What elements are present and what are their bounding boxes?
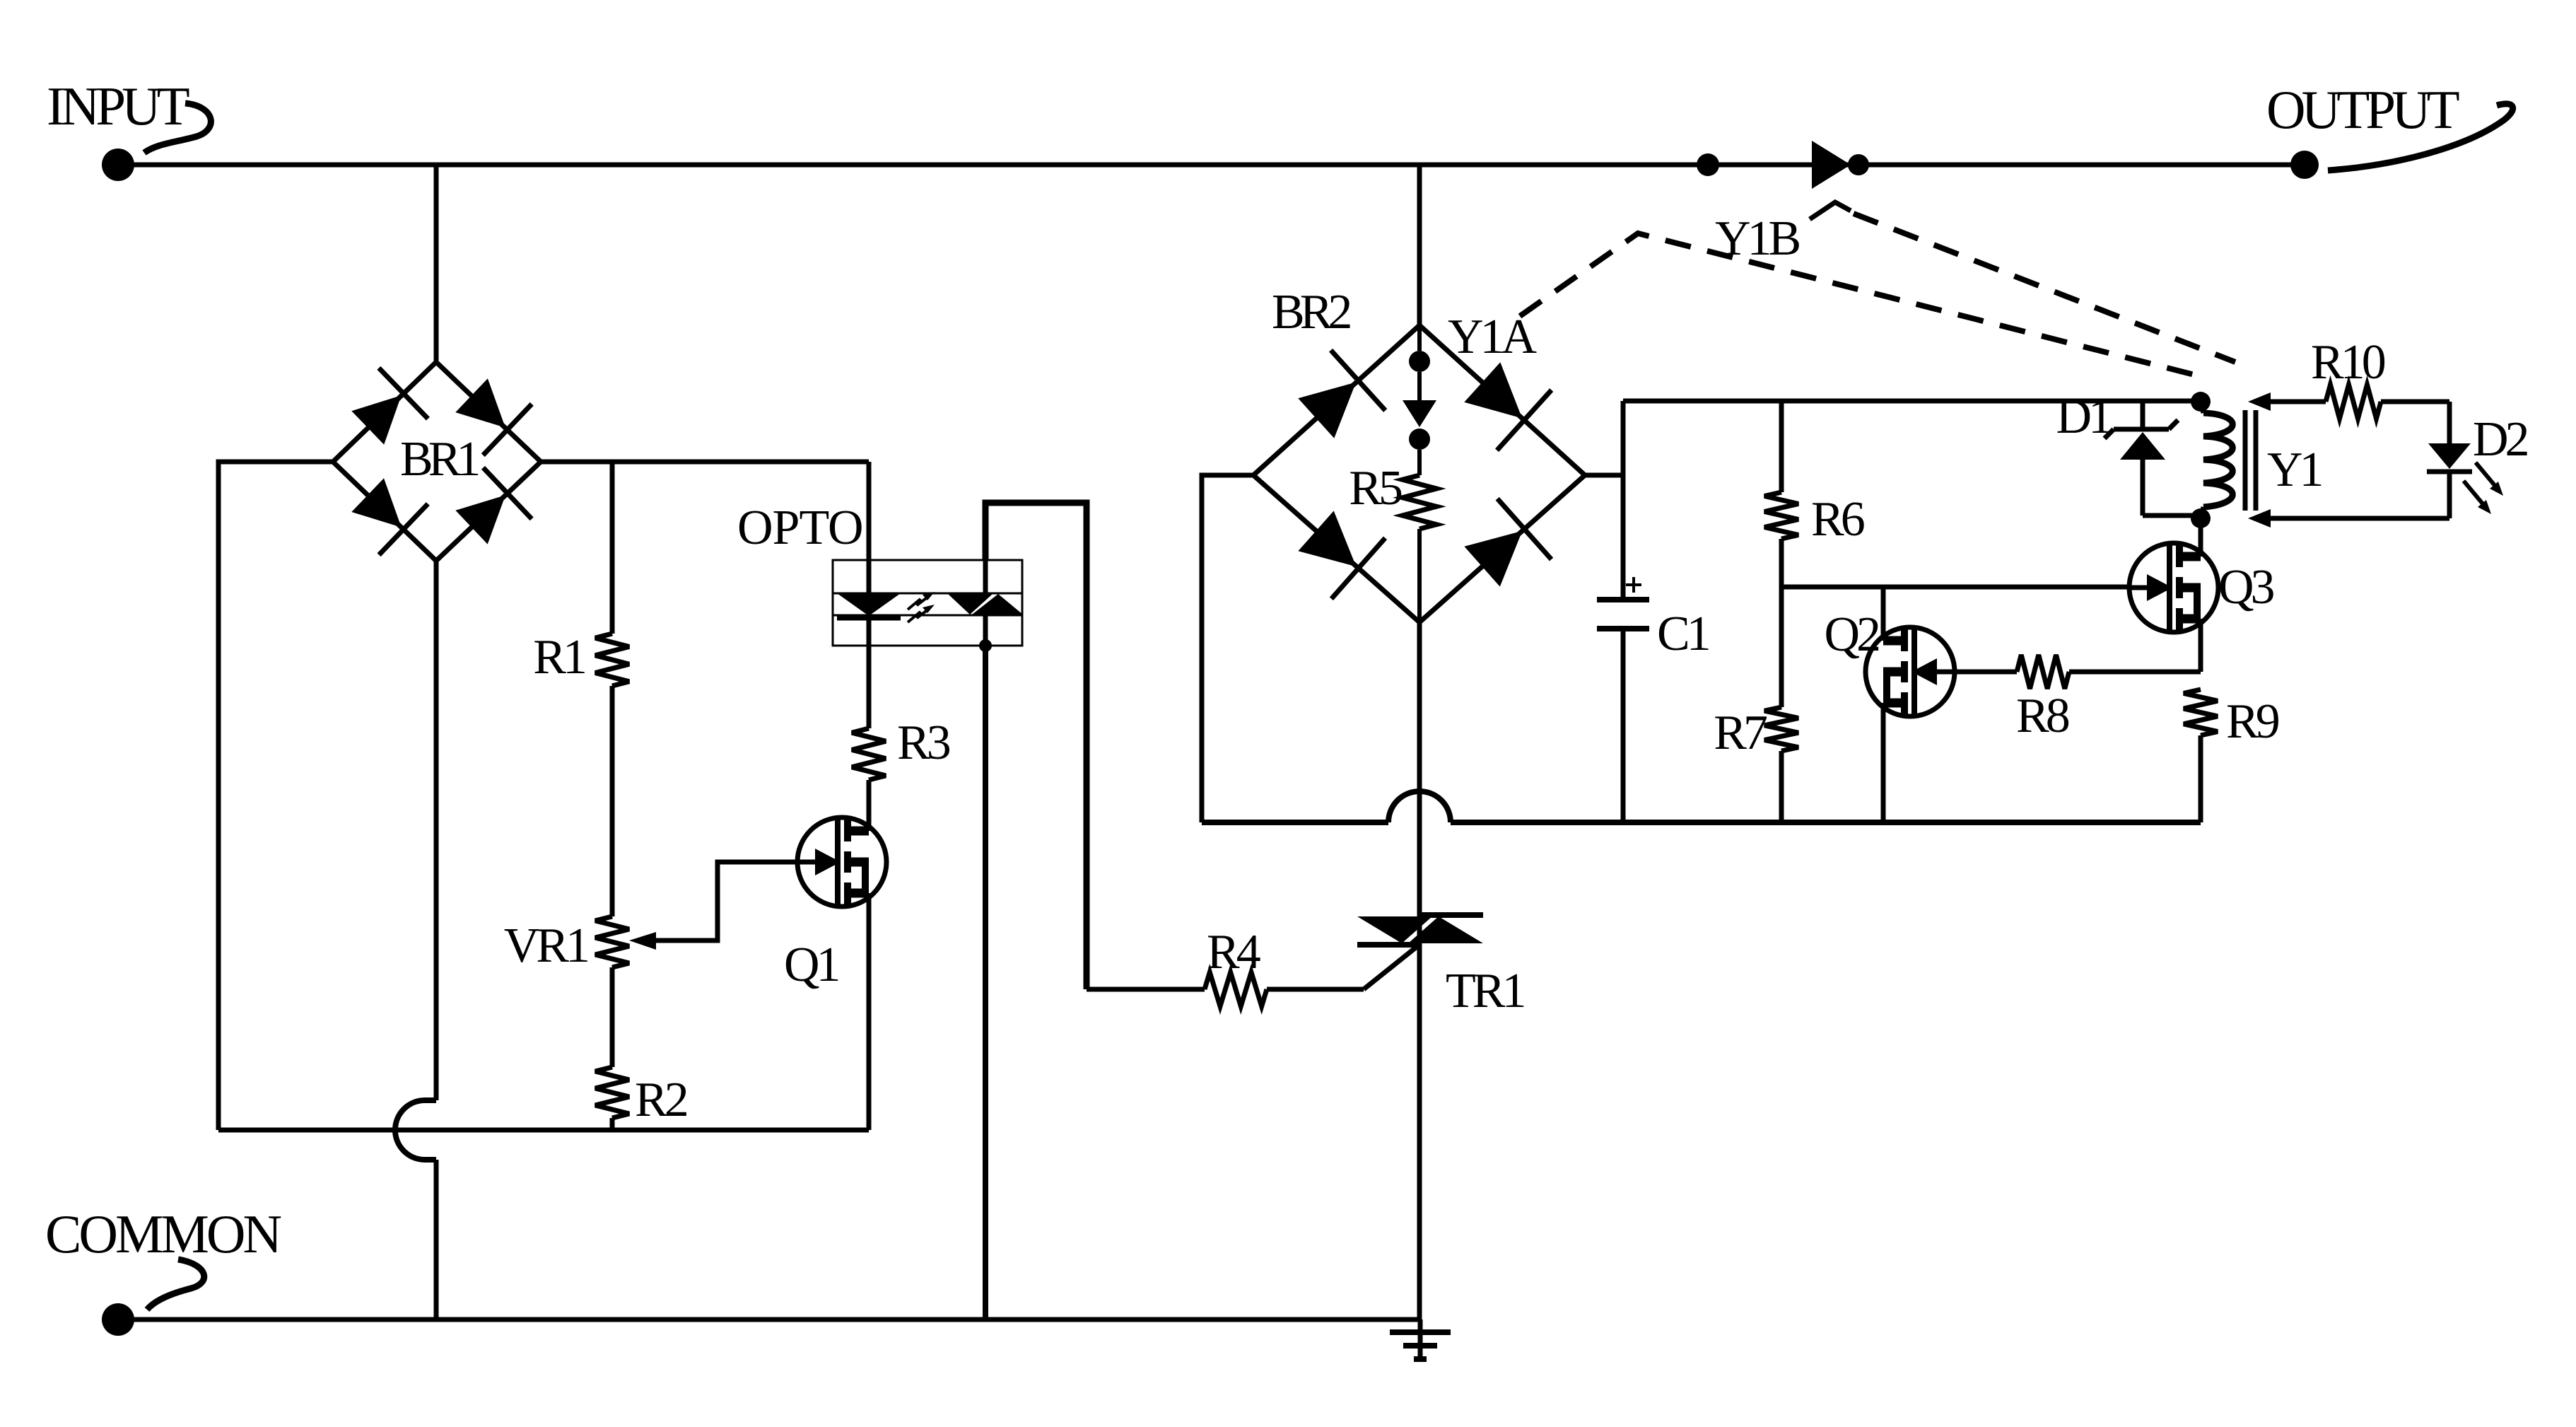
resistor R9 — [2184, 689, 2218, 735]
OPTO LED — [837, 593, 901, 616]
svg-text:TR1: TR1 — [1446, 964, 1523, 1018]
capacitor C1 — [1597, 597, 1649, 602]
BR1 diode bottom-left — [351, 478, 402, 528]
potentiometer VR1 — [595, 916, 629, 967]
svg-text:Y1: Y1 — [2267, 443, 2322, 497]
wire R10 to D2 — [2381, 400, 2449, 404]
OUTPUT pointer squiggle — [2328, 104, 2513, 170]
BR2 center indicator diode and R5 — [1409, 351, 1430, 372]
wire R6 to R7 junction — [1779, 539, 1784, 707]
resistor R4 — [1205, 972, 1267, 1006]
resistor R5 — [1403, 475, 1436, 529]
wire Q3 source to R9 node — [2199, 619, 2203, 672]
wire Q2 source to bottom rail — [1881, 703, 1886, 822]
wire R1 to VR1 — [610, 686, 615, 916]
wire top rail INPUT to OUTPUT — [118, 163, 2305, 168]
wire R2 to bottom loop — [610, 1118, 615, 1130]
svg-text:R4: R4 — [1207, 925, 1260, 979]
OPTO photo-triac — [948, 594, 993, 615]
D2 light arrows — [2476, 462, 2497, 488]
wire BR1 left vertex to left loop — [218, 462, 333, 1130]
OPTO light arrows — [908, 596, 929, 610]
resistor R10 — [2326, 385, 2381, 419]
svg-text:VR1: VR1 — [504, 919, 587, 973]
svg-text:R9: R9 — [2226, 694, 2279, 749]
BR1 diode top-left — [351, 395, 401, 445]
svg-text:BR1: BR1 — [400, 432, 478, 487]
bridge rectifier BR2 diamond — [1253, 325, 1585, 622]
wire Q1 source to bottom loop — [867, 893, 872, 1130]
wire R5 to BR2 bottom — [1417, 529, 1422, 622]
BR1 diode bottom-right — [455, 495, 505, 544]
svg-text:R8: R8 — [2016, 689, 2069, 743]
BR2 diode bottom-right — [1464, 531, 1522, 587]
relay core bars — [2243, 410, 2248, 511]
Y1B pointer tick — [1810, 202, 1851, 219]
transistor Q1 MOSFET — [797, 817, 886, 907]
svg-text:C1: C1 — [1657, 607, 1709, 661]
OPTO internal rails — [833, 593, 1022, 595]
wire R4 to TR1 gate — [1267, 987, 1364, 992]
wire R9 to bottom rail — [2199, 735, 2203, 822]
wire left loop bottom — [218, 1128, 869, 1133]
wire top rail to BR2 top — [1417, 165, 1422, 325]
svg-text:Q2: Q2 — [1824, 607, 1879, 662]
wire R8 to Q3 source node — [2069, 670, 2201, 675]
wire Q3 drain to relay node — [2199, 518, 2203, 557]
svg-text:D1: D1 — [2056, 390, 2110, 444]
BR2 diode top-right — [1464, 362, 1522, 418]
svg-text:R5: R5 — [1349, 461, 1402, 516]
svg-text:R10: R10 — [2311, 335, 2385, 390]
wire top rail to BR1 top — [434, 165, 439, 362]
node INPUT terminal — [102, 148, 134, 181]
wire R6 top — [1779, 401, 1784, 492]
wire gate line R6R7 junction to Q3 — [1781, 585, 2129, 590]
svg-text:Q1: Q1 — [784, 938, 838, 992]
svg-text:INPUT: INPUT — [47, 76, 189, 136]
triac TR1 — [1420, 912, 1483, 918]
svg-text:COMMON: COMMON — [45, 1204, 281, 1264]
BR2 diode bottom-left — [1298, 511, 1356, 566]
svg-text:Q3: Q3 — [2218, 560, 2274, 615]
ground symbol — [1418, 1320, 1423, 1362]
wire to R4 — [1087, 987, 1205, 992]
wire VR1 to R2 — [610, 967, 615, 1067]
wire C1 to bottom rail — [1621, 629, 1626, 822]
svg-text:R2: R2 — [635, 1073, 687, 1127]
bridge rectifier BR1 diamond — [333, 362, 541, 561]
node relay top — [2191, 392, 2211, 412]
resistor R1 — [595, 634, 629, 686]
node COMMON terminal — [102, 1303, 134, 1336]
svg-text:R1: R1 — [533, 630, 585, 685]
svg-text:R3: R3 — [897, 716, 950, 770]
dashed linkage from Y1B — [1854, 214, 2235, 362]
resistor R8 — [2017, 655, 2069, 689]
svg-text:R7: R7 — [1714, 706, 1767, 760]
wire block left edge — [1621, 401, 1626, 600]
svg-text:OUTPUT: OUTPUT — [2266, 79, 2459, 140]
wire OPTO triac bottom to common — [983, 615, 988, 646]
relay actuate arrow top — [2248, 392, 2271, 411]
resistor R2 — [595, 1067, 629, 1118]
wire R3 to Q1 drain — [867, 780, 872, 831]
svg-text:R6: R6 — [1811, 492, 1864, 547]
wire BR2 right vertex to block — [1585, 473, 1623, 478]
wire BR2 bottom through TR1 to common — [1417, 622, 1422, 1320]
node OUTPUT terminal — [2290, 151, 2319, 179]
wire common rail — [118, 1317, 1420, 1322]
wire BR1 right vertex to R1 node and OPTO — [541, 460, 869, 465]
BR1 diode top-right — [455, 378, 505, 428]
wire control block bottom rail with hump — [1202, 820, 1388, 825]
VR1 wiper arrow — [629, 932, 656, 950]
wire Q2 gate to R8 — [1955, 670, 2017, 675]
wire Q2 drain tap — [1881, 587, 1886, 641]
dashed linkage from Y1A — [1520, 233, 2206, 378]
svg-text:D2: D2 — [2473, 412, 2528, 467]
INPUT pointer squiggle — [144, 103, 211, 153]
node junction on top rail — [1697, 153, 1719, 176]
transistor Q2 MOSFET — [1866, 627, 1955, 716]
relay coil Y1 — [2203, 413, 2232, 507]
svg-text:Y1A: Y1A — [1448, 310, 1538, 364]
resistor R6 — [1764, 492, 1798, 539]
wire block top rail — [1623, 399, 2201, 404]
COMMON pointer squiggle — [147, 1259, 204, 1310]
node relay bottom — [2191, 508, 2211, 528]
resistor R7 — [1764, 707, 1798, 751]
wire OPTO triac top loop — [983, 560, 988, 593]
wire BR1 right to R1 — [610, 462, 615, 634]
relay contact Y1B on top rail — [1812, 141, 1851, 189]
zener diode D1 — [2141, 401, 2145, 431]
wire BR1 bottom leg with crossover hump — [434, 561, 439, 1100]
wire BR2 left vertex loop — [1202, 475, 1253, 822]
wire R7 to bottom rail — [1779, 751, 1784, 822]
wire D2 to relay bottom — [2447, 472, 2452, 518]
resistor R3 — [852, 728, 886, 780]
relay actuate arrow bottom — [2248, 509, 2271, 528]
optocoupler OPTO box — [833, 560, 1022, 646]
wire OPTO to R3 — [867, 646, 872, 728]
BR2 diode top-left — [1298, 383, 1356, 438]
svg-text:OPTO: OPTO — [737, 501, 863, 555]
svg-text:BR2: BR2 — [1272, 285, 1350, 339]
transistor Q3 MOSFET — [2129, 543, 2218, 632]
LED D2 — [2428, 443, 2471, 469]
